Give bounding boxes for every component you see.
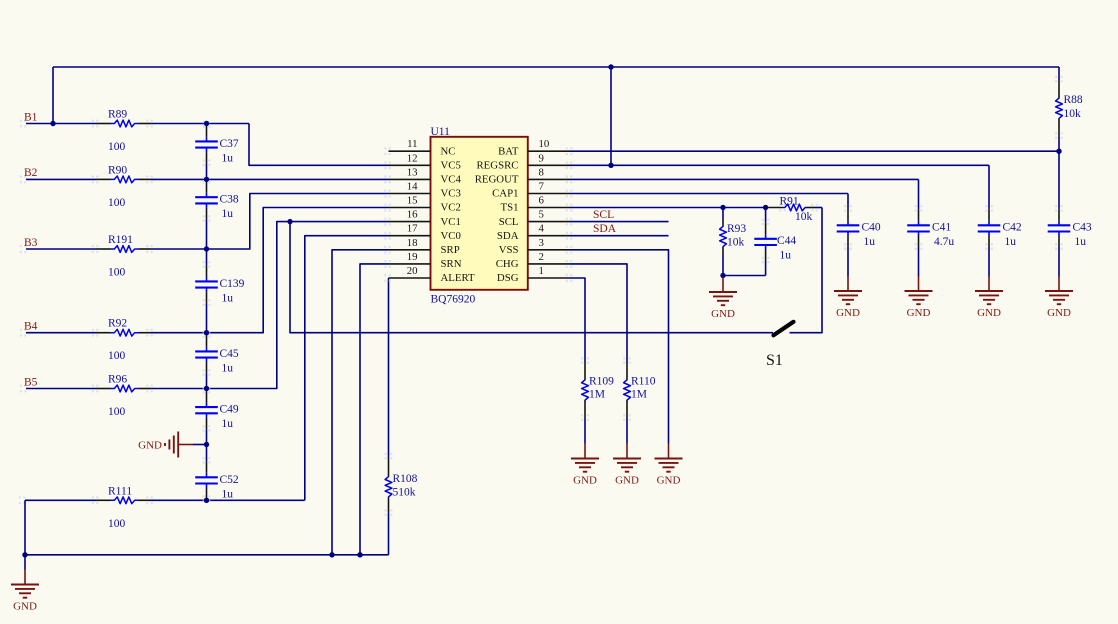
- svg-text:C52: C52: [220, 474, 239, 486]
- svg-text:GND: GND: [573, 475, 597, 487]
- svg-text:R92: R92: [108, 318, 127, 330]
- svg-text:C139: C139: [220, 278, 245, 290]
- svg-text:GND: GND: [138, 440, 162, 452]
- svg-text:BQ76920: BQ76920: [431, 294, 476, 306]
- svg-text:SDA: SDA: [497, 230, 519, 242]
- svg-text:18: 18: [407, 237, 418, 249]
- svg-text:B2: B2: [24, 167, 38, 179]
- svg-text:SDA: SDA: [593, 223, 617, 235]
- svg-text:TS1: TS1: [501, 202, 519, 214]
- svg-text:NC: NC: [441, 145, 456, 157]
- svg-text:VC3: VC3: [441, 188, 461, 200]
- svg-text:10k: 10k: [795, 211, 813, 223]
- svg-text:S1: S1: [766, 352, 783, 369]
- svg-text:1: 1: [539, 265, 544, 277]
- svg-text:R88: R88: [1064, 94, 1083, 106]
- svg-text:C38: C38: [220, 194, 239, 206]
- svg-text:1M: 1M: [631, 389, 647, 401]
- svg-text:100: 100: [108, 350, 126, 362]
- svg-text:GND: GND: [1047, 307, 1071, 319]
- svg-text:100: 100: [108, 267, 126, 279]
- svg-text:10k: 10k: [1064, 108, 1082, 120]
- svg-text:11: 11: [407, 138, 417, 150]
- svg-text:R90: R90: [108, 164, 127, 176]
- svg-text:100: 100: [108, 518, 126, 530]
- svg-text:100: 100: [108, 406, 126, 418]
- svg-text:B5: B5: [24, 376, 38, 388]
- svg-text:10: 10: [539, 138, 550, 150]
- svg-text:GND: GND: [907, 307, 931, 319]
- svg-text:BAT: BAT: [498, 145, 519, 157]
- svg-text:R110: R110: [631, 376, 656, 388]
- svg-text:SRN: SRN: [441, 258, 462, 270]
- svg-text:SCL: SCL: [593, 209, 614, 221]
- svg-text:R108: R108: [393, 473, 418, 485]
- svg-text:GND: GND: [13, 601, 37, 613]
- svg-text:C44: C44: [777, 235, 796, 247]
- svg-text:REGOUT: REGOUT: [475, 174, 519, 186]
- svg-text:DSG: DSG: [497, 272, 519, 284]
- svg-text:VC1: VC1: [441, 216, 461, 228]
- svg-text:1u: 1u: [864, 236, 876, 248]
- svg-text:8: 8: [539, 166, 544, 178]
- svg-text:1u: 1u: [222, 488, 234, 500]
- svg-text:4.7u: 4.7u: [934, 236, 954, 248]
- svg-text:16: 16: [407, 209, 418, 221]
- svg-text:R96: R96: [108, 374, 127, 386]
- svg-text:2: 2: [539, 251, 544, 263]
- svg-text:GND: GND: [615, 475, 639, 487]
- svg-text:B1: B1: [24, 111, 38, 123]
- svg-text:C40: C40: [862, 222, 881, 234]
- svg-text:VSS: VSS: [499, 244, 519, 256]
- svg-text:1u: 1u: [222, 208, 234, 220]
- svg-text:C49: C49: [220, 404, 239, 416]
- svg-text:15: 15: [407, 195, 418, 207]
- svg-text:14: 14: [407, 181, 418, 193]
- svg-text:1u: 1u: [222, 292, 234, 304]
- svg-text:CAP1: CAP1: [492, 188, 518, 200]
- svg-text:C45: C45: [220, 348, 239, 360]
- svg-text:GND: GND: [657, 475, 681, 487]
- svg-text:6: 6: [539, 195, 545, 207]
- svg-text:1u: 1u: [222, 418, 234, 430]
- svg-text:B3: B3: [24, 237, 38, 249]
- svg-text:R191: R191: [108, 234, 133, 246]
- svg-text:C43: C43: [1073, 222, 1092, 234]
- svg-text:10k: 10k: [727, 237, 745, 249]
- svg-text:100: 100: [108, 141, 126, 153]
- svg-text:VC4: VC4: [441, 174, 462, 186]
- svg-text:1M: 1M: [589, 389, 605, 401]
- svg-text:1u: 1u: [1005, 236, 1017, 248]
- svg-text:100: 100: [108, 197, 126, 209]
- svg-text:R89: R89: [108, 109, 127, 121]
- svg-text:12: 12: [407, 152, 418, 164]
- svg-text:1u: 1u: [780, 249, 792, 261]
- svg-text:ALERT: ALERT: [441, 272, 476, 284]
- svg-text:3: 3: [539, 237, 544, 249]
- svg-text:VC0: VC0: [441, 230, 461, 242]
- svg-text:510k: 510k: [393, 487, 416, 499]
- svg-text:1u: 1u: [222, 152, 234, 164]
- svg-text:7: 7: [539, 181, 545, 193]
- svg-text:R91: R91: [780, 196, 799, 208]
- svg-text:GND: GND: [977, 307, 1001, 319]
- svg-text:1u: 1u: [222, 362, 234, 374]
- svg-text:R93: R93: [727, 223, 746, 235]
- svg-text:CHG: CHG: [496, 258, 519, 270]
- svg-text:REGSRC: REGSRC: [476, 160, 518, 172]
- svg-text:SRP: SRP: [441, 244, 460, 256]
- svg-text:C42: C42: [1003, 222, 1022, 234]
- svg-text:19: 19: [407, 251, 418, 263]
- svg-text:VC5: VC5: [441, 160, 461, 172]
- svg-text:VC2: VC2: [441, 202, 461, 214]
- svg-text:SCL: SCL: [499, 216, 519, 228]
- svg-text:1u: 1u: [1075, 236, 1087, 248]
- svg-text:20: 20: [407, 265, 418, 277]
- svg-text:13: 13: [407, 166, 418, 178]
- svg-text:B4: B4: [24, 321, 38, 333]
- svg-text:C41: C41: [932, 222, 951, 234]
- svg-text:C37: C37: [220, 138, 239, 150]
- svg-text:9: 9: [539, 152, 544, 164]
- svg-text:4: 4: [539, 223, 545, 235]
- svg-text:R109: R109: [589, 376, 614, 388]
- svg-text:GND: GND: [711, 308, 735, 320]
- svg-text:R111: R111: [108, 485, 132, 497]
- svg-text:GND: GND: [836, 307, 860, 319]
- svg-text:17: 17: [407, 223, 418, 235]
- svg-text:5: 5: [539, 209, 544, 221]
- svg-text:U11: U11: [431, 126, 451, 138]
